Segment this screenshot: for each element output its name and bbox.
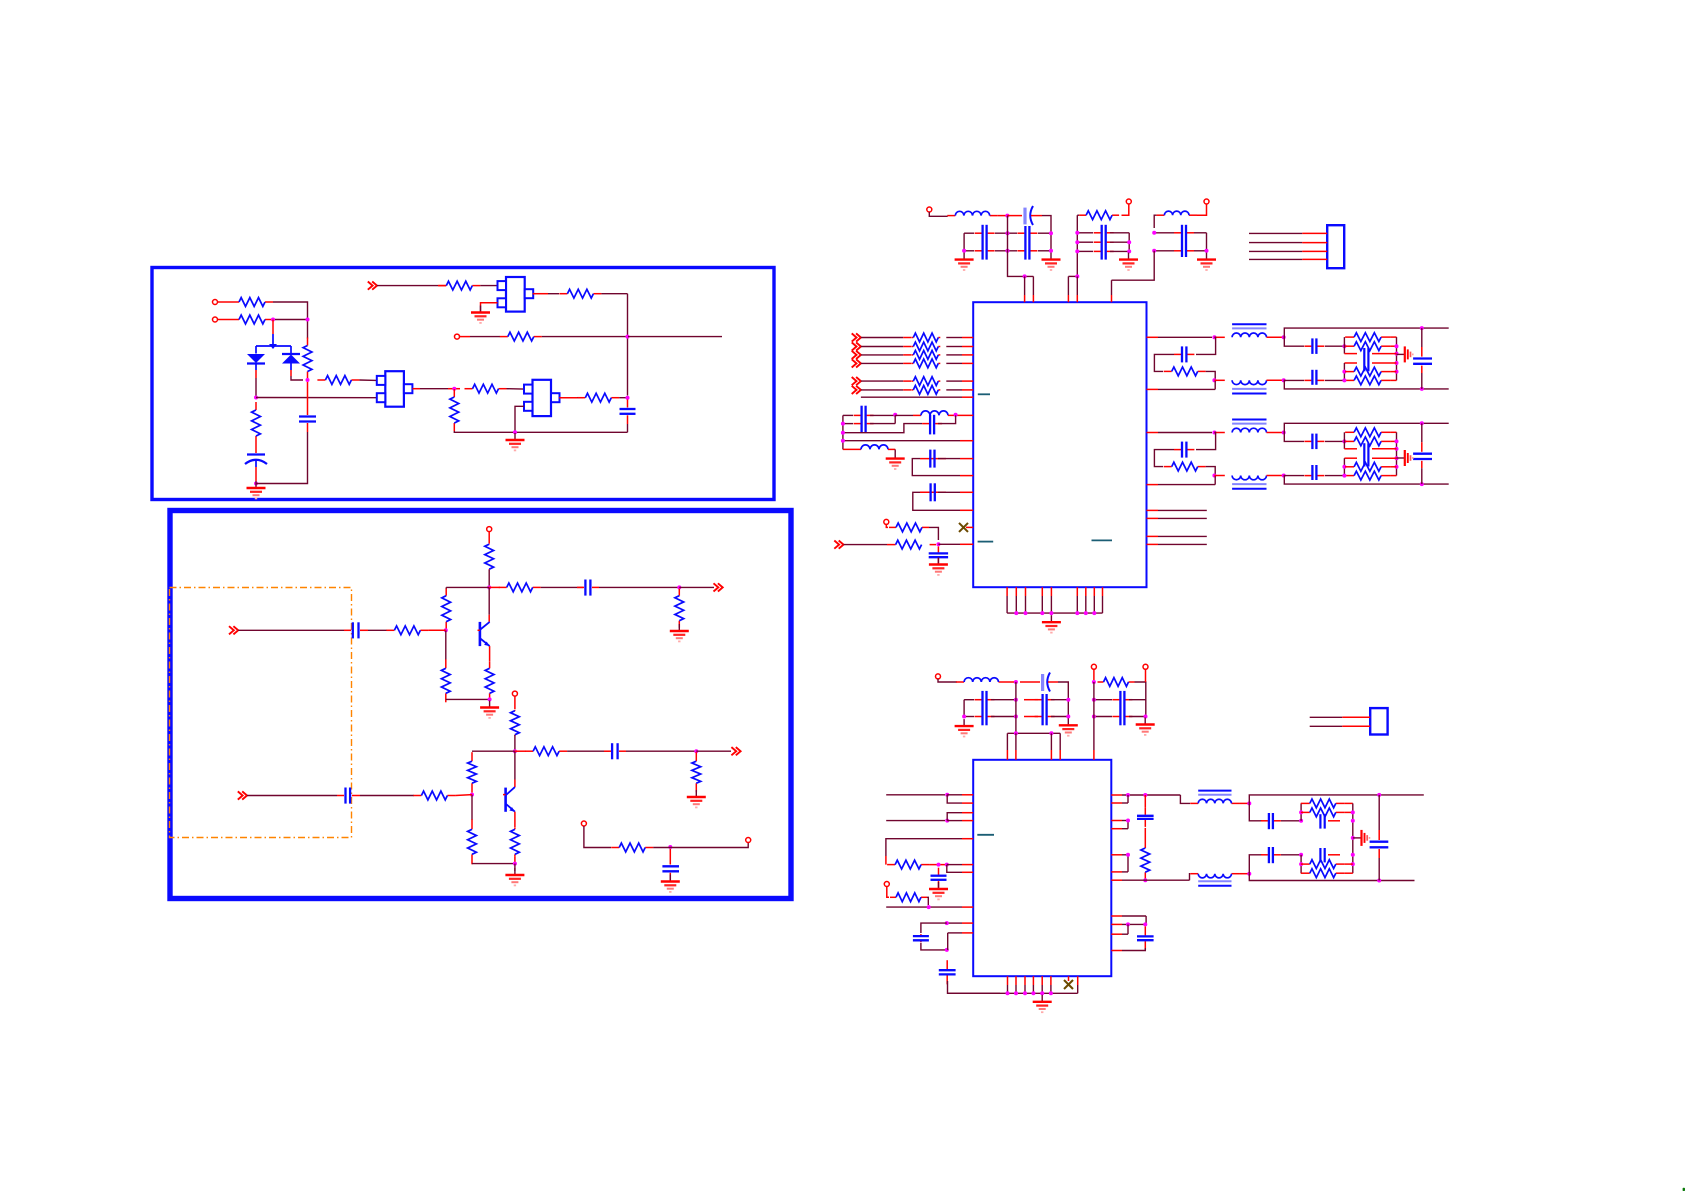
wire — [412, 388, 420, 390]
resistor R53 — [1098, 678, 1135, 687]
wire — [247, 795, 337, 797]
wire — [272, 320, 274, 335]
ground — [1119, 253, 1138, 270]
resistor R22 — [511, 827, 520, 856]
inductor L4 — [861, 445, 888, 449]
wire — [1127, 855, 1129, 872]
wire — [930, 544, 936, 546]
terminal P6 — [884, 519, 889, 524]
IC U2 (main tuner) — [973, 302, 1146, 587]
wire — [947, 794, 962, 796]
wire (line 2) — [886, 820, 945, 822]
wire (cap loop2) — [920, 491, 946, 493]
wire — [599, 586, 679, 588]
wire — [448, 388, 460, 390]
inductor L51a — [1232, 333, 1266, 337]
wire — [1206, 371, 1216, 380]
wire (top rail) — [1284, 328, 1449, 337]
wire (left col) — [963, 700, 965, 718]
resistor R10 — [559, 289, 601, 298]
wire (rowB2) — [1094, 699, 1112, 701]
wire (row2) — [991, 699, 1016, 701]
junction — [1014, 731, 1018, 735]
wire — [445, 629, 447, 631]
input arrow (box1) — [368, 282, 377, 290]
wire (gnd pin) — [1102, 587, 1104, 596]
wire (stub pin) — [1147, 535, 1159, 537]
wire (mid rail 1) — [1344, 353, 1357, 355]
wire — [1197, 204, 1207, 215]
junction — [1005, 214, 1009, 218]
wire — [946, 354, 962, 356]
junction — [626, 396, 630, 400]
junction (base node 2) — [470, 793, 474, 797]
wire — [542, 336, 628, 338]
junction — [1299, 810, 1303, 814]
junction — [1144, 715, 1148, 719]
wire — [488, 587, 490, 614]
trimmer capacitor CT3 — [1020, 673, 1058, 692]
wire — [488, 570, 490, 587]
junction — [1023, 991, 1027, 995]
junction — [1299, 853, 1303, 857]
capacitor C27 — [1261, 813, 1281, 829]
wire — [1325, 379, 1344, 381]
wire — [1390, 466, 1396, 468]
ground — [670, 624, 689, 641]
wire — [1122, 948, 1145, 951]
wire (right col) — [1128, 233, 1130, 252]
resistor R20 — [468, 752, 477, 792]
junction — [937, 863, 941, 867]
wire — [696, 750, 731, 752]
wire (pin line B) — [1147, 388, 1159, 390]
wire — [844, 544, 888, 546]
wire (pin bus) — [1007, 732, 1060, 734]
wire (row) — [964, 250, 974, 252]
inductor L52a — [1232, 428, 1266, 432]
amplifier U1 — [498, 277, 534, 312]
wire (top rail) — [1249, 795, 1424, 804]
wire (pin) — [1024, 276, 1026, 295]
wire — [255, 378, 257, 398]
wire — [653, 843, 748, 848]
resistor R58 — [1301, 808, 1345, 817]
junction — [841, 431, 845, 435]
chassis ground (rotated) — [1362, 830, 1370, 846]
wire (row) — [964, 232, 974, 234]
wire — [948, 981, 1001, 993]
wire (pin) — [962, 362, 973, 364]
wire — [903, 346, 911, 348]
junction — [1282, 474, 1286, 478]
wire (gnd pin) — [1024, 976, 1026, 985]
wire (jog) — [947, 933, 949, 950]
junction — [1014, 680, 1018, 684]
wire (mid stub) — [1397, 457, 1405, 459]
junction — [1040, 991, 1044, 995]
wire (N2 column) — [1343, 458, 1345, 475]
junction — [306, 378, 310, 382]
wire — [929, 527, 938, 540]
terminal P3 — [455, 334, 460, 339]
wire (jog up) — [947, 813, 962, 821]
wire — [947, 864, 962, 866]
no-connect mark — [1064, 980, 1073, 989]
junction — [1212, 474, 1216, 478]
resistor R41 — [911, 386, 940, 395]
wire (row3-mid) — [1024, 716, 1038, 718]
wire (pin) — [960, 440, 973, 442]
trimmer capacitor CT1 — [1007, 206, 1042, 225]
junction — [1420, 421, 1424, 425]
capacitor C16 — [929, 450, 935, 468]
wire (N1 column) — [1343, 337, 1345, 354]
wire (top rail) — [1284, 423, 1449, 432]
wire (row1) — [843, 414, 853, 416]
junction — [1126, 853, 1130, 857]
wire — [470, 336, 500, 338]
resistor R25 — [413, 791, 455, 800]
wire — [291, 376, 303, 380]
wire (loop) — [886, 839, 962, 856]
capacitor C on bus — [1413, 359, 1432, 364]
terminal P4 — [581, 821, 586, 826]
trimmer capacitor CT4 — [1320, 814, 1340, 828]
wire (cap row bottom) — [1284, 475, 1304, 477]
resistor R12 — [485, 543, 494, 570]
junction (base node) — [444, 628, 448, 632]
wire (mid rail 2) — [1344, 457, 1357, 459]
wire — [1112, 251, 1155, 280]
wire (row2) — [843, 423, 853, 425]
junction — [1066, 715, 1070, 719]
wire — [628, 336, 722, 338]
wire (gnd pin) — [1041, 587, 1043, 596]
filter FL1 — [524, 380, 560, 416]
resistor R55 — [890, 893, 927, 902]
input arrow (stage1) — [229, 626, 238, 634]
wire (row) — [1110, 232, 1129, 234]
junction — [1342, 439, 1346, 443]
wire — [460, 336, 471, 338]
wire — [273, 319, 308, 321]
wire — [861, 380, 903, 382]
junction — [1049, 611, 1053, 615]
junction — [954, 413, 958, 417]
junction — [1212, 378, 1216, 382]
junction — [1006, 991, 1010, 995]
wire (cap row top) — [1284, 433, 1304, 442]
wire (line 5) — [948, 932, 962, 934]
junction — [452, 387, 456, 391]
junction — [1066, 698, 1070, 702]
resistor R27 — [1079, 211, 1119, 220]
wire — [514, 696, 516, 709]
wire (ground bus) — [1007, 612, 1102, 614]
terminal P7 — [884, 882, 889, 887]
wire (row1-row2 link) — [894, 415, 896, 423]
wire — [861, 389, 903, 391]
junction — [1014, 715, 1018, 719]
wire — [1267, 432, 1284, 434]
wire (row2) — [964, 699, 974, 701]
junction — [1075, 249, 1079, 253]
junction — [1143, 922, 1147, 926]
wire (row2) — [870, 423, 895, 425]
wire — [938, 458, 960, 460]
wire (bottom rail) — [1284, 380, 1449, 389]
junction — [1395, 447, 1399, 451]
capacitor C17 — [930, 483, 936, 501]
junction — [1342, 465, 1346, 469]
wire (row) — [1077, 232, 1093, 234]
capacitor C on bus — [1413, 454, 1432, 459]
capacitor C21 — [1035, 694, 1055, 725]
junction — [893, 413, 897, 417]
inductor L2 — [1156, 211, 1197, 215]
wire (jog down) — [947, 795, 962, 803]
ground — [505, 868, 524, 885]
wire (pin) — [1006, 733, 1008, 750]
resistor R5 — [252, 402, 261, 444]
wire (mid rail 1) — [1344, 448, 1357, 450]
terminal VCC3 — [1204, 199, 1209, 204]
wire — [1007, 681, 1016, 683]
ground — [506, 433, 525, 450]
resistor R16 — [499, 583, 541, 592]
junction — [1014, 611, 1018, 615]
wire (row) — [1077, 241, 1093, 243]
oscillator Y1 — [377, 371, 413, 407]
input arrow (IF 4) — [852, 359, 861, 367]
resistor R26 — [611, 843, 653, 852]
wire — [368, 629, 387, 631]
wire (row) — [1110, 250, 1129, 252]
wire — [1122, 204, 1129, 215]
wire (right col) — [1067, 694, 1069, 718]
wire — [514, 751, 516, 779]
capacitor C1 (polarized) — [245, 444, 267, 481]
wire (mid rail 2) — [1372, 362, 1397, 364]
junction (emitter gnd node) — [488, 697, 492, 701]
wire (pin) — [1059, 733, 1061, 750]
IC U3 (second tuner) — [973, 760, 1111, 976]
connector J2 — [1370, 708, 1387, 734]
resistor R40 — [911, 377, 940, 386]
junction — [1420, 387, 1424, 391]
junction — [1420, 326, 1424, 330]
junction — [945, 819, 949, 823]
wire — [273, 302, 308, 320]
junction — [1351, 862, 1355, 866]
capacitor C14 — [854, 406, 874, 433]
wire (row) — [995, 232, 1017, 234]
wire (pin line 6) — [1111, 871, 1122, 873]
capacitor C6 — [604, 743, 626, 759]
wire — [887, 544, 896, 546]
input arrow (IF 2) — [852, 342, 861, 350]
wire (cap loop1) — [920, 458, 946, 460]
wire — [947, 820, 962, 822]
wire (left drop) — [963, 233, 965, 252]
junction — [271, 318, 275, 322]
wire — [515, 750, 526, 752]
wire (J1 pin 2) — [1249, 242, 1302, 244]
wire — [921, 923, 947, 933]
capacitor C52b — [1304, 434, 1324, 450]
wire — [843, 448, 861, 450]
wire (NC pin stub) — [966, 526, 973, 528]
wire (N2 column) — [1343, 363, 1345, 380]
wire (J2 pin 2) — [1310, 725, 1343, 727]
junction — [1377, 793, 1381, 797]
wire — [946, 362, 962, 364]
junction — [1212, 335, 1216, 339]
capacitor C8 — [662, 849, 679, 880]
resistor R13 — [442, 589, 451, 629]
capacitor C28 — [1261, 847, 1281, 863]
junction — [1049, 249, 1053, 253]
capacitor C51a — [1174, 346, 1194, 362]
wire (row3) — [1051, 716, 1068, 718]
resistor R21 — [468, 819, 477, 864]
wire (left col) — [1076, 215, 1078, 276]
wire (row) — [995, 250, 1017, 252]
wire (pin line 2) — [1111, 802, 1122, 804]
wire — [1144, 828, 1146, 840]
wire — [238, 629, 344, 631]
capacitor C25 — [939, 960, 956, 984]
wire — [895, 414, 913, 416]
junction — [1126, 922, 1130, 926]
junction — [1351, 853, 1355, 857]
wire (gnd pin) — [1015, 587, 1017, 596]
junction — [962, 249, 966, 253]
junction — [1342, 344, 1346, 348]
junction — [1152, 249, 1156, 253]
terminal P2 — [213, 317, 218, 322]
capacitor C52c — [1304, 465, 1324, 480]
wire (bus drop) — [1015, 682, 1017, 733]
wire (ground bus) — [948, 992, 1078, 994]
wire — [218, 301, 232, 303]
wire — [480, 306, 482, 312]
wire (pin line 5) — [1111, 854, 1122, 856]
wire — [515, 406, 524, 432]
junction — [1127, 249, 1131, 253]
resistor R24 — [692, 752, 701, 792]
wire — [446, 586, 489, 588]
wire — [903, 380, 911, 382]
IC internal pin mark — [977, 834, 994, 836]
wire (right col) — [1206, 233, 1208, 252]
diode pair common rail — [256, 344, 291, 349]
junction — [927, 905, 931, 909]
junction — [1075, 611, 1079, 615]
transformer core — [1232, 389, 1266, 394]
box frame (top-left section) — [152, 268, 774, 500]
wire (pin) — [1032, 276, 1034, 295]
wire (NC pin stub) — [1068, 976, 1070, 981]
junction — [1092, 611, 1096, 615]
ground — [1042, 615, 1061, 632]
wire — [903, 389, 911, 391]
wire (gnd pin) — [1032, 976, 1034, 985]
junction — [1395, 361, 1399, 365]
wire (pin line 7) — [1111, 879, 1122, 881]
wire (bus drop) — [1008, 216, 1034, 277]
wire — [861, 337, 903, 339]
wire (pin) — [1067, 276, 1069, 295]
junction — [1351, 810, 1355, 814]
terminal VCC5 — [1091, 664, 1096, 669]
junction — [626, 335, 630, 339]
resistor R33 — [911, 359, 940, 368]
wire (gnd pin) — [1050, 976, 1052, 985]
wire (pin) — [962, 838, 973, 840]
wire (pin) — [962, 380, 973, 382]
junction — [1395, 465, 1399, 469]
wire (pin line 9) — [1111, 923, 1122, 925]
wire — [888, 448, 895, 450]
wire — [471, 792, 473, 794]
junction — [254, 396, 258, 400]
junction — [1351, 836, 1355, 840]
junction — [1075, 274, 1079, 278]
junction — [1395, 370, 1399, 374]
wire (long pin line) — [843, 440, 960, 442]
wire — [489, 646, 491, 661]
resistor R52c — [1345, 437, 1390, 446]
wire — [541, 586, 583, 588]
capacitor C20 — [975, 691, 995, 725]
wire — [428, 629, 445, 631]
wire — [903, 362, 911, 364]
capacitor C18 — [929, 546, 948, 564]
terminal VCC6 — [1143, 664, 1148, 669]
ground — [1033, 995, 1052, 1012]
junction — [1351, 819, 1355, 823]
wire (mid rail 1) — [1372, 353, 1397, 355]
junction (collector node 2) — [513, 749, 517, 753]
resistor R32 — [911, 351, 940, 360]
capacitor C52a — [1174, 442, 1194, 458]
terminal P5 — [746, 838, 751, 843]
wire — [480, 285, 497, 287]
junction — [1299, 819, 1303, 823]
wire — [1281, 820, 1301, 822]
wire (cap row bottom) — [1284, 379, 1304, 381]
ground — [471, 306, 490, 323]
wire (row) — [1154, 232, 1174, 234]
junction — [1084, 611, 1088, 615]
junction (emitter gnd node 2) — [513, 862, 517, 866]
input arrow (AGC 1) — [852, 377, 861, 385]
wire (right column) — [1396, 337, 1398, 380]
resistor R51c — [1345, 342, 1390, 351]
resistor R19 — [511, 710, 520, 736]
ground — [929, 882, 948, 899]
wire (mid rail 2) — [1344, 362, 1357, 364]
junction — [1143, 878, 1147, 882]
resistor R51b — [1345, 333, 1390, 342]
resistor R31 — [911, 342, 940, 351]
wire — [218, 319, 232, 321]
capacitor C26 — [1137, 808, 1154, 827]
wire (pin) — [1050, 733, 1052, 750]
wire — [626, 750, 696, 752]
